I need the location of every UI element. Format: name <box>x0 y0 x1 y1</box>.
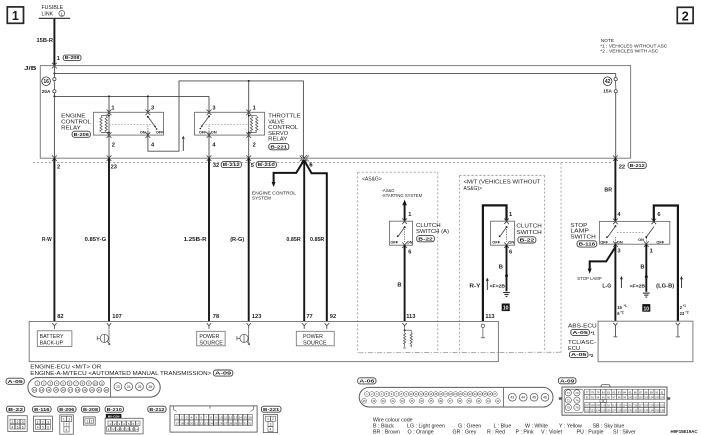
svg-text:2: 2 <box>682 9 689 23</box>
svg-text:10: 10 <box>644 306 650 312</box>
svg-text:2: 2 <box>66 423 68 427</box>
svg-text:78: 78 <box>213 314 219 320</box>
J/B exit pin 5 B-210 <box>246 155 251 161</box>
svg-text:B-210: B-210 <box>107 407 123 412</box>
svg-text:25: 25 <box>214 421 218 425</box>
svg-text:B-22: B-22 <box>418 236 433 241</box>
svg-text:113: 113 <box>406 314 415 320</box>
svg-text:114: 114 <box>623 404 628 408</box>
svg-text:GR : Grey: GR : Grey <box>453 430 477 435</box>
AS&G dashed box <box>358 171 438 173</box>
relay2 switch <box>208 115 210 117</box>
svg-text:6: 6 <box>408 249 411 255</box>
internal circuit pin 107 <box>108 329 110 342</box>
diagram sheet box 1 <box>7 7 23 23</box>
stop lamp switch link <box>617 232 644 234</box>
svg-text:111: 111 <box>607 404 611 408</box>
svg-text:SOURCE: SOURCE <box>199 340 223 346</box>
J/B exit pin 23 <box>107 155 112 161</box>
svg-text:4: 4 <box>66 428 68 432</box>
wire L-G <box>614 244 616 321</box>
svg-text:20: 20 <box>190 421 194 425</box>
svg-text:115: 115 <box>628 404 633 408</box>
svg-text:B-212: B-212 <box>149 407 165 412</box>
svg-text:3: 3 <box>47 420 49 424</box>
svg-text:31: 31 <box>244 421 248 425</box>
J/B exit pin 22 B-212 <box>613 155 618 161</box>
ground ref 10 <box>502 304 510 312</box>
svg-text:B-116: B-116 <box>34 407 50 412</box>
svg-text:POWER: POWER <box>303 334 323 340</box>
svg-text:B-212: B-212 <box>630 163 646 168</box>
svg-text:124: 124 <box>596 409 601 413</box>
svg-text:129: 129 <box>622 409 627 413</box>
svg-text:4: 4 <box>270 428 272 432</box>
wire B from clutch switch <box>506 245 508 291</box>
wire relay2 pin2 to J/B exit 5 <box>248 135 250 158</box>
svg-text:22: 22 <box>105 388 109 392</box>
svg-text:2: 2 <box>17 420 19 424</box>
harness dash-dot boundary bottom <box>358 351 560 354</box>
svg-text:23: 23 <box>111 165 117 171</box>
svg-text:2: 2 <box>253 142 256 148</box>
svg-text:6: 6 <box>657 212 660 218</box>
svg-text:0.85R: 0.85R <box>310 237 324 243</box>
svg-text:2: 2 <box>57 165 60 171</box>
svg-text:26: 26 <box>219 421 223 425</box>
engine control system branch <box>274 160 304 183</box>
svg-text:24: 24 <box>209 421 213 425</box>
clutch switch B-22 <box>491 221 515 245</box>
svg-text:OFF: OFF <box>199 130 207 135</box>
svg-text:6: 6 <box>47 426 49 430</box>
svg-text:108: 108 <box>590 404 595 408</box>
top bus wire inside J/B <box>54 72 615 74</box>
svg-text:45: 45 <box>532 396 536 400</box>
svg-text:*1: *1 <box>591 331 596 336</box>
flow arrow L-G <box>620 278 622 288</box>
ECU pin symbols <box>52 323 56 329</box>
svg-text:16: 16 <box>62 388 66 392</box>
internal circuit pin 123 <box>248 329 250 342</box>
svg-text:24: 24 <box>127 385 131 389</box>
internal resistors pin 113 AS&G <box>402 323 406 328</box>
svg-text:1: 1 <box>509 212 512 218</box>
svg-text:FUSIBLE: FUSIBLE <box>42 5 64 11</box>
connector B-22 <box>7 406 25 412</box>
svg-text:R-Y: R-Y <box>469 284 480 290</box>
internal termination pin 113 M/T <box>481 324 484 327</box>
svg-text:42: 42 <box>605 79 611 85</box>
wire relay1 pin4 loop to throttle relay pin1 and node 6 <box>148 81 304 158</box>
svg-text:1: 1 <box>253 106 256 112</box>
relay2 coil <box>248 112 250 135</box>
svg-text:21: 21 <box>195 421 199 425</box>
svg-text:ON: ON <box>638 237 644 242</box>
svg-text:20A: 20A <box>42 89 51 94</box>
svg-text:71: 71 <box>567 391 571 395</box>
svg-text:15: 15 <box>617 305 622 310</box>
svg-text:106: 106 <box>660 395 665 399</box>
svg-text:SWITCH: SWITCH <box>570 234 595 240</box>
svg-text:Wire colour code: Wire colour code <box>373 417 413 423</box>
to AS&G starting system arrow <box>402 200 407 206</box>
svg-text:ENGINE-A-M/TECU <AUTOMATED MAN: ENGINE-A-M/TECU <AUTOMATED MANUAL TRANSM… <box>30 371 211 377</box>
svg-text:135: 135 <box>655 409 660 413</box>
engine control relay B-206 <box>93 112 163 135</box>
svg-text:A-09: A-09 <box>215 371 232 376</box>
svg-text:29: 29 <box>234 421 238 425</box>
svg-text:1: 1 <box>408 212 411 218</box>
connector B-212 <box>148 406 166 412</box>
fuse 16 20A <box>53 66 55 78</box>
svg-text:ENGINE-ECU <M/T> OR: ENGINE-ECU <M/T> OR <box>30 364 101 370</box>
svg-text:BR: BR <box>604 188 612 194</box>
svg-text:122: 122 <box>585 409 590 413</box>
svg-text:11: 11 <box>121 427 124 431</box>
svg-text:112: 112 <box>612 404 617 408</box>
wire BR stop lamp supply <box>614 158 616 221</box>
connector A-09 <box>562 387 667 415</box>
svg-text:14: 14 <box>135 427 139 431</box>
svg-text:ON: ON <box>211 130 217 135</box>
wire 1.25B-R <box>208 158 210 321</box>
svg-text:<F>2B: <F>2B <box>630 284 646 289</box>
svg-text:SYSTEM: SYSTEM <box>252 196 271 201</box>
wire B from stop lamp switch pin 1 <box>645 244 647 292</box>
svg-text:BR : Brown: BR : Brown <box>373 430 400 435</box>
svg-text:3: 3 <box>22 420 24 424</box>
svg-text:136: 136 <box>660 409 665 413</box>
wire bus to relay1 pin 3 <box>147 96 149 112</box>
svg-text:13: 13 <box>130 427 134 431</box>
wire J/B fuse16 to pin 2 <box>53 96 55 158</box>
svg-text:16: 16 <box>248 416 252 420</box>
svg-text:POWER: POWER <box>199 334 219 340</box>
relay1 switch <box>147 116 149 118</box>
svg-text:4: 4 <box>11 425 13 429</box>
svg-text:A-05: A-05 <box>572 330 588 335</box>
svg-text:ON: ON <box>508 240 514 245</box>
svg-text:22: 22 <box>200 421 204 425</box>
svg-text:15: 15 <box>54 388 58 392</box>
svg-text:1.25B-R: 1.25B-R <box>184 237 207 243</box>
svg-text:A-06: A-06 <box>359 379 375 384</box>
svg-text:STOP LAMP: STOP LAMP <box>577 276 602 281</box>
svg-text:1: 1 <box>86 420 88 424</box>
svg-text:15: 15 <box>244 416 248 420</box>
svg-text:27: 27 <box>224 421 228 425</box>
svg-text:102: 102 <box>638 395 643 399</box>
battery back-up <box>37 331 72 347</box>
relay1 coil <box>108 112 110 135</box>
svg-text:*1: *1 <box>683 304 686 308</box>
svg-text:119: 119 <box>649 404 654 408</box>
svg-text:123: 123 <box>252 314 262 320</box>
svg-text:OFF: OFF <box>390 240 398 245</box>
wire bus to relay1 pin 1 <box>108 96 110 112</box>
svg-text:OFF: OFF <box>656 239 664 244</box>
power source 2 <box>296 331 334 346</box>
svg-text:1: 1 <box>267 417 269 421</box>
svg-text:75: 75 <box>567 406 571 410</box>
svg-text:25: 25 <box>138 385 142 389</box>
svg-text:19: 19 <box>185 421 189 425</box>
stop lamp switch B-116 <box>599 221 669 244</box>
svg-text:B-206: B-206 <box>59 407 75 412</box>
svg-text:SWITCH: SWITCH <box>516 230 541 236</box>
svg-text:15B-R: 15B-R <box>37 38 53 44</box>
wire R-W <box>53 158 55 321</box>
svg-text:23: 23 <box>205 421 209 425</box>
svg-text:18: 18 <box>180 421 184 425</box>
svg-text:107: 107 <box>112 314 122 320</box>
harness dashed boundary top <box>33 162 613 164</box>
svg-text:(R-G): (R-G) <box>230 237 244 243</box>
connector arrows at J/B top (B-208) <box>52 63 57 69</box>
svg-text:B: B <box>397 282 401 288</box>
svg-text:17: 17 <box>69 388 73 392</box>
svg-text:2: 2 <box>91 420 93 424</box>
svg-text:19: 19 <box>83 388 87 392</box>
svg-text:*1: *1 <box>624 304 627 308</box>
svg-text:10: 10 <box>219 416 223 420</box>
flow arrow beside wire <box>182 138 184 151</box>
svg-text:10: 10 <box>94 382 98 386</box>
svg-text:1: 1 <box>111 106 114 112</box>
svg-text:B: B <box>499 265 503 271</box>
svg-text:109: 109 <box>596 404 601 408</box>
svg-text:2: 2 <box>112 142 115 148</box>
svg-text:20: 20 <box>90 388 94 392</box>
svg-text:16: 16 <box>43 79 49 85</box>
svg-text:117: 117 <box>639 404 644 408</box>
wire relay1 pin2 to J/B exit 23 <box>108 135 110 158</box>
ground ref 10 stop <box>642 304 650 312</box>
svg-text:2: 2 <box>42 420 44 424</box>
svg-text:82: 82 <box>57 314 63 320</box>
svg-text:74: 74 <box>575 398 579 402</box>
svg-text:B-22: B-22 <box>520 238 536 243</box>
svg-text:RELAY: RELAY <box>61 125 81 131</box>
svg-text:O : Orange: O : Orange <box>408 430 434 435</box>
svg-text:101: 101 <box>633 395 638 399</box>
svg-text:13: 13 <box>234 416 238 420</box>
svg-text:5: 5 <box>17 425 19 429</box>
svg-text:ON: ON <box>140 130 146 135</box>
wire (R-G) <box>248 158 250 321</box>
svg-text:V : Violet: V : Violet <box>541 430 563 435</box>
svg-text:A-09: A-09 <box>560 378 575 383</box>
svg-text:120: 120 <box>655 404 660 408</box>
svg-text:12: 12 <box>33 388 37 392</box>
svg-text:J/B: J/B <box>24 66 36 72</box>
svg-text:6: 6 <box>509 249 512 255</box>
svg-text:0.85Y-G: 0.85Y-G <box>85 237 107 243</box>
ground clutch switch <box>503 292 510 294</box>
svg-text:12: 12 <box>229 416 233 420</box>
svg-text:1: 1 <box>650 249 653 255</box>
svg-text:134: 134 <box>649 409 654 413</box>
svg-text:NOTE: NOTE <box>601 38 614 44</box>
wire relay2 pin4 to J/B exit 32 <box>208 135 210 158</box>
svg-text:1: 1 <box>57 56 60 62</box>
svg-text:73: 73 <box>575 391 579 395</box>
svg-text:<F>2B: <F>2B <box>490 284 506 289</box>
svg-text:B-206: B-206 <box>74 132 90 137</box>
svg-text:B-116: B-116 <box>579 242 596 247</box>
diagram sheet box 2 <box>677 7 693 23</box>
svg-text:B-208: B-208 <box>83 407 99 412</box>
svg-text:<AS&G>: <AS&G> <box>362 177 382 183</box>
connector A-06 label <box>358 378 376 384</box>
connector B-206 <box>58 406 76 412</box>
svg-text:*2: *2 <box>589 353 594 358</box>
svg-text:B: B <box>640 265 644 271</box>
stop lamp branch arrow <box>590 247 616 270</box>
svg-text:0.85R: 0.85R <box>286 237 300 243</box>
connector B-116 <box>33 406 52 412</box>
svg-text:14: 14 <box>239 416 243 420</box>
wire 0.85R to pin 77 <box>303 160 305 322</box>
svg-text:128: 128 <box>617 409 622 413</box>
svg-text:CLUTCH: CLUTCH <box>416 223 441 229</box>
ABS ECU box <box>598 321 693 362</box>
svg-text:125: 125 <box>601 409 606 413</box>
connector A-06 <box>359 387 553 407</box>
svg-text:23: 23 <box>116 385 120 389</box>
svg-text:A-05: A-05 <box>8 379 24 384</box>
wire B from clutch switch A <box>404 245 406 321</box>
bus from fuse 16 to relays <box>54 95 209 97</box>
svg-text:R : Red: R : Red <box>487 430 505 435</box>
junction block J/B <box>40 66 630 159</box>
svg-text:77: 77 <box>306 314 312 320</box>
svg-text:B-22: B-22 <box>8 407 24 412</box>
svg-text:132: 132 <box>638 409 643 413</box>
svg-text:OFF: OFF <box>600 239 608 244</box>
svg-text:3: 3 <box>270 422 272 426</box>
flow arrow M/T <box>486 280 488 290</box>
svg-text:11: 11 <box>224 416 227 420</box>
svg-text:22: 22 <box>619 165 625 171</box>
connector B-210 <box>105 406 123 412</box>
connector A-09 label <box>558 378 576 384</box>
stop lamp switch right contact <box>645 236 647 238</box>
wire 15B-R <box>53 18 55 65</box>
svg-text:6: 6 <box>309 163 312 169</box>
svg-text:105: 105 <box>655 395 660 399</box>
svg-text:3: 3 <box>68 417 70 421</box>
J/B exit node 6 <box>301 155 307 161</box>
svg-text:1: 1 <box>11 420 13 424</box>
svg-text:116: 116 <box>633 404 638 408</box>
svg-text:OFF: OFF <box>156 130 164 135</box>
connector B-221 <box>261 406 281 412</box>
svg-text:118: 118 <box>644 404 649 408</box>
svg-text:104: 104 <box>649 395 654 399</box>
svg-text:14: 14 <box>47 388 51 392</box>
svg-text:2: 2 <box>272 417 274 421</box>
svg-text:121: 121 <box>660 404 665 408</box>
svg-text:P : Pink: P : Pink <box>516 430 535 435</box>
svg-text:SWITCH (A): SWITCH (A) <box>416 229 449 235</box>
svg-text:17: 17 <box>175 421 179 425</box>
svg-text:5: 5 <box>42 426 44 430</box>
svg-text:127: 127 <box>612 409 617 413</box>
svg-text:23: 23 <box>680 311 685 316</box>
svg-text:4: 4 <box>37 426 39 430</box>
flow arrow LG-B <box>681 278 683 288</box>
svg-text:26: 26 <box>148 385 152 389</box>
svg-text:R-W: R-W <box>42 237 52 243</box>
harness dashed boundary right <box>560 163 562 353</box>
svg-text:ABS-ECU: ABS-ECU <box>568 323 597 329</box>
svg-text:B-221: B-221 <box>263 407 280 412</box>
svg-text:BATTERY: BATTERY <box>40 334 65 340</box>
svg-text:92: 92 <box>330 314 336 320</box>
svg-text:11: 11 <box>100 382 103 386</box>
connector B-208 <box>81 406 99 412</box>
svg-text:AS&G)>: AS&G)> <box>464 186 483 192</box>
svg-text:1: 1 <box>37 420 39 424</box>
svg-text:1: 1 <box>12 9 19 23</box>
svg-text:32: 32 <box>248 421 252 425</box>
ground stop lamp switch <box>643 292 650 294</box>
stop lamp switch left contact <box>614 225 616 227</box>
svg-text:32: 32 <box>213 163 219 169</box>
svg-text:*2 : VEHICLES WITH ASC: *2 : VEHICLES WITH ASC <box>600 48 659 54</box>
svg-text:SOURCE: SOURCE <box>303 340 327 346</box>
svg-text:44: 44 <box>521 396 525 400</box>
svg-text:MU-CON: MU-CON <box>108 414 120 418</box>
svg-text:126: 126 <box>606 409 611 413</box>
svg-text:100: 100 <box>628 395 633 399</box>
svg-text:3: 3 <box>617 249 620 255</box>
engine ECU box <box>29 322 498 362</box>
svg-text:76: 76 <box>575 406 579 410</box>
svg-text:5: 5 <box>251 163 254 169</box>
svg-text:*2: *2 <box>620 310 623 314</box>
svg-text:10: 10 <box>116 427 120 431</box>
svg-text:H9F15E19AC: H9F15E19AC <box>671 429 699 434</box>
svg-text:(LG-B): (LG-B) <box>656 284 674 290</box>
svg-text:46: 46 <box>543 396 547 400</box>
svg-text:OFF: OFF <box>492 240 500 245</box>
svg-text:131: 131 <box>633 409 638 413</box>
connector A-05 <box>28 378 160 398</box>
wire to throttle relay pin 1 <box>248 81 250 112</box>
svg-text:SI : Silver: SI : Silver <box>613 430 636 435</box>
throttle valve control servo relay B-221 <box>195 112 265 135</box>
svg-text:B-221: B-221 <box>270 144 288 149</box>
svg-text:113: 113 <box>485 314 494 320</box>
wire LG-B from pin 6 <box>654 206 678 322</box>
svg-text:CLUTCH: CLUTCH <box>516 224 541 230</box>
svg-text:72: 72 <box>567 398 571 402</box>
ABS ECU pin symbols <box>613 323 617 337</box>
connector A-05 label <box>6 378 24 384</box>
svg-text:TCL/ASC-: TCL/ASC- <box>568 340 596 346</box>
svg-text:133: 133 <box>644 409 649 413</box>
fuse 42 15A <box>615 73 617 77</box>
svg-text:110: 110 <box>601 404 606 408</box>
svg-text:-STARTING SYSTEM: -STARTING SYSTEM <box>382 193 423 198</box>
svg-text:30: 30 <box>239 421 243 425</box>
svg-text:130: 130 <box>628 409 633 413</box>
svg-text:113: 113 <box>617 404 622 408</box>
svg-text:RELAY: RELAY <box>268 137 287 143</box>
